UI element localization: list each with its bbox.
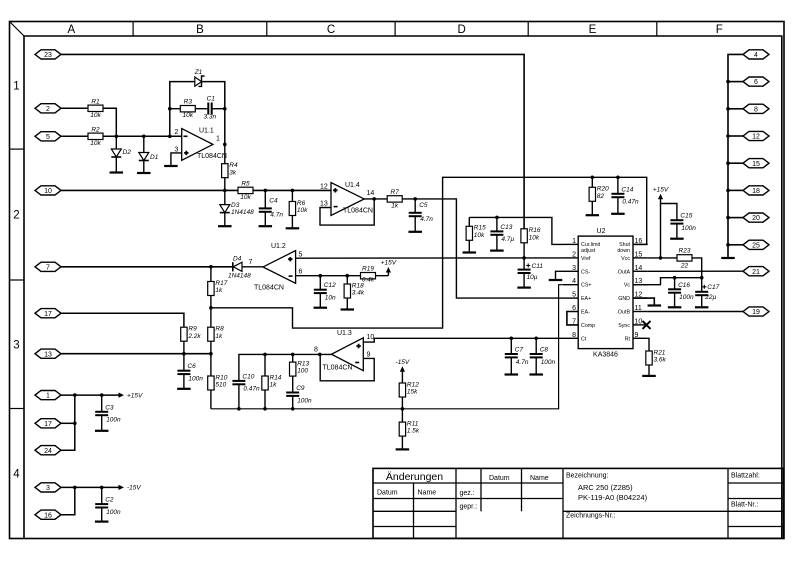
capacitor C11 — [518, 263, 544, 281]
svg-text:R11: R11 — [407, 421, 419, 428]
svg-text:22µ: 22µ — [704, 294, 716, 301]
svg-text:R21: R21 — [654, 349, 666, 356]
resistor R15 — [466, 225, 486, 241]
wire GND pin to ground — [633, 298, 654, 305]
wire CS- to ground — [556, 271, 564, 280]
row tick marks — [10, 149, 25, 408]
wire OutA to connector 21 — [648, 270, 743, 272]
svg-text:Z1: Z1 — [194, 69, 203, 76]
svg-text:TL084CN: TL084CN — [343, 208, 373, 215]
wire C13 to ground — [496, 235, 498, 251]
wire U1.3 output line — [239, 354, 332, 381]
connector 3 — [35, 483, 61, 492]
svg-text:R9: R9 — [188, 326, 197, 333]
svg-text:R12: R12 — [407, 381, 419, 388]
ground C15 — [670, 238, 684, 240]
svg-text:Vcc: Vcc — [621, 256, 630, 262]
svg-text:4: 4 — [572, 278, 576, 285]
svg-text:Sync: Sync — [618, 323, 630, 329]
svg-text:down: down — [617, 248, 630, 254]
ground R20 — [586, 214, 600, 216]
wire connector 17 to R9 — [61, 313, 184, 327]
junction dots Vc net — [673, 276, 704, 280]
wire R8 to node13 — [210, 341, 212, 376]
wire Vcc line — [648, 257, 677, 259]
connector 10 — [35, 186, 61, 195]
ground R18 — [341, 308, 355, 310]
svg-text:D: D — [457, 24, 465, 36]
resistor R20 — [589, 186, 609, 202]
wire R13 branch — [292, 354, 294, 362]
wire EA- to Comp loop — [567, 312, 578, 325]
junction dots shutdown net — [591, 176, 620, 180]
wire R15 branch — [468, 217, 470, 226]
ground R15 — [463, 251, 477, 253]
column tick marks — [133, 22, 657, 37]
wire R19 to +15V — [387, 272, 389, 276]
svg-text:510: 510 — [215, 382, 226, 389]
svg-text:C3: C3 — [105, 404, 114, 411]
resistor R18 — [344, 282, 365, 298]
svg-text:Blattzahl:: Blattzahl: — [731, 473, 760, 480]
wire bus to connector 12 — [728, 135, 743, 137]
wire R7 to C5 node — [403, 199, 564, 298]
junction R17/R8 — [209, 306, 213, 310]
svg-text:10k: 10k — [90, 140, 101, 147]
svg-text:100n: 100n — [106, 417, 121, 424]
svg-text:1.5k: 1.5k — [407, 428, 420, 435]
svg-text:A: A — [67, 24, 75, 36]
wire R11 to ground — [401, 436, 403, 449]
junction dots right bus — [726, 80, 730, 247]
capacitor C16 — [668, 282, 694, 301]
resistor R4 — [222, 162, 238, 178]
U1.1 input marks — [184, 136, 189, 155]
svg-text:C: C — [327, 24, 335, 36]
diode D1 — [139, 153, 159, 162]
svg-text:R5: R5 — [241, 180, 250, 187]
svg-text:D2: D2 — [123, 149, 132, 156]
ground C2 — [95, 520, 109, 522]
wire D1 to ground — [143, 161, 145, 174]
resistor R3 — [180, 99, 195, 120]
svg-text:8: 8 — [572, 332, 576, 339]
wire connector 10 line — [61, 189, 238, 191]
svg-text:C1: C1 — [207, 96, 216, 103]
wire R10 to bottom net — [210, 390, 212, 409]
wire U1.2 pin5 to U2 Vref — [296, 257, 564, 259]
svg-text:U1.3: U1.3 — [337, 330, 352, 337]
wire net 23 — [61, 54, 524, 228]
resistor R23 — [677, 248, 692, 270]
svg-text:3: 3 — [13, 339, 19, 351]
svg-text:Blatt-Nr.:: Blatt-Nr.: — [731, 502, 758, 509]
svg-text:CS-: CS- — [581, 269, 590, 275]
svg-text:3.4k: 3.4k — [352, 290, 365, 297]
ground C4 — [259, 225, 273, 227]
svg-text:U1.4: U1.4 — [345, 182, 360, 189]
connector 17 — [35, 309, 61, 318]
svg-text:25: 25 — [752, 242, 760, 249]
svg-text:R6: R6 — [297, 200, 306, 207]
row labels 1-4 — [13, 80, 20, 480]
capacitor C17 — [695, 284, 719, 301]
resistor R6 — [289, 200, 308, 216]
svg-text:C12: C12 — [324, 282, 336, 289]
wire R18 branch — [346, 276, 348, 284]
ground C14 — [611, 213, 625, 215]
svg-text:2: 2 — [46, 106, 50, 113]
svg-text:E: E — [589, 24, 597, 36]
svg-text:16: 16 — [635, 238, 643, 245]
svg-text:D1: D1 — [150, 154, 159, 161]
wire U1.1 pin3 to ground — [171, 153, 182, 166]
svg-text:R17: R17 — [215, 280, 227, 287]
connector 16 — [35, 510, 61, 519]
svg-text:10: 10 — [635, 318, 643, 325]
wire C3 to ground — [101, 415, 103, 431]
svg-text:B: B — [196, 24, 204, 36]
wire C16 branch — [674, 278, 676, 290]
wire +15V to Vcc — [660, 199, 662, 258]
ground U1.1 pin3 — [164, 165, 178, 167]
svg-text:C2: C2 — [105, 497, 114, 504]
svg-text:10k: 10k — [297, 207, 308, 214]
connector 12 — [743, 131, 769, 140]
frame corner diagonal — [10, 22, 25, 37]
connector 5 — [35, 132, 61, 141]
wire node to D3 — [224, 190, 226, 204]
junction R17 top — [209, 265, 213, 269]
wire R9 to node13 — [183, 341, 185, 354]
junction C5 — [372, 197, 417, 201]
svg-text:11: 11 — [635, 305, 642, 312]
svg-text:18: 18 — [752, 188, 760, 195]
wire C2 branch — [101, 487, 103, 504]
wire D2 to ground — [115, 157, 117, 173]
wire pin1 net — [469, 217, 563, 244]
wire R4 to node10 — [224, 178, 226, 191]
svg-text:2: 2 — [175, 129, 179, 136]
svg-text:14: 14 — [367, 190, 375, 197]
svg-text:C14: C14 — [621, 186, 633, 193]
svg-text:100n: 100n — [297, 397, 312, 404]
svg-text:4.7n: 4.7n — [516, 359, 529, 366]
svg-text:13: 13 — [320, 201, 328, 208]
connector 8 — [743, 104, 769, 113]
wire Vc net — [633, 278, 702, 285]
wire C15 branch — [661, 204, 677, 221]
wire C10 to bottom net — [238, 384, 240, 409]
connector 15 — [743, 159, 769, 168]
wire R6 to ground — [291, 216, 293, 229]
svg-text:R14: R14 — [270, 374, 282, 381]
wire R17 branch — [210, 267, 212, 282]
ground C17 — [695, 306, 709, 308]
svg-text:GND: GND — [618, 296, 630, 302]
ground D2 — [110, 171, 124, 173]
svg-text:22: 22 — [680, 263, 689, 270]
svg-text:0.47n: 0.47n — [243, 386, 260, 393]
svg-text:1k: 1k — [391, 202, 399, 209]
svg-text:D4: D4 — [233, 256, 242, 263]
svg-text:R20: R20 — [597, 186, 609, 193]
svg-text:TL084CN: TL084CN — [254, 285, 284, 292]
U1.3 input marks — [355, 344, 361, 363]
junction C13 — [495, 216, 499, 220]
svg-text:1: 1 — [216, 136, 220, 143]
svg-text:100n: 100n — [541, 359, 556, 366]
capacitor C15 — [670, 213, 696, 232]
diode D3 — [220, 202, 254, 216]
wire U1.4 output — [364, 198, 388, 200]
svg-text:R13: R13 — [297, 361, 309, 368]
wire C14 branch — [617, 177, 619, 194]
svg-text:TL084CN: TL084CN — [197, 153, 227, 160]
resistor R13 — [290, 361, 310, 377]
op-amp U1.2 — [249, 243, 303, 292]
power +15V rail — [119, 392, 144, 399]
wire C6 to ground — [183, 374, 185, 389]
svg-text:10k: 10k — [529, 234, 540, 241]
svg-text:15: 15 — [752, 161, 760, 168]
capacitor C10 — [232, 373, 260, 392]
wire node to D1 — [143, 136, 145, 152]
junction dots input line — [115, 135, 172, 139]
ground R11 — [396, 448, 410, 450]
svg-text:3.3n: 3.3n — [204, 114, 217, 121]
wire U1.1 feedback left — [170, 82, 195, 137]
ground C13 — [490, 250, 504, 252]
svg-text:TL084CN: TL084CN — [323, 365, 353, 372]
svg-text:6: 6 — [754, 79, 758, 86]
svg-text:23: 23 — [44, 52, 52, 59]
svg-text:10µ: 10µ — [527, 274, 538, 281]
wire R20 branch — [591, 177, 593, 187]
svg-text:10k: 10k — [240, 194, 251, 201]
svg-text:C6: C6 — [187, 363, 196, 370]
junction dots feedback — [168, 107, 227, 146]
title block — [373, 468, 784, 538]
connector 7 — [35, 262, 61, 271]
wire R6 branch — [291, 190, 293, 201]
svg-text:Datum: Datum — [489, 475, 510, 482]
wire C1 to output branch — [212, 108, 225, 110]
wire C7 branch — [510, 338, 512, 354]
svg-text:EA+: EA+ — [581, 296, 591, 302]
capacitor C6 — [177, 363, 203, 382]
wire Rt to R21 — [648, 338, 649, 351]
svg-text:5: 5 — [299, 252, 303, 259]
svg-text:82: 82 — [597, 193, 605, 200]
svg-text:4.7n: 4.7n — [270, 211, 283, 218]
svg-text:12: 12 — [752, 134, 760, 141]
svg-text:U1.1: U1.1 — [199, 128, 214, 135]
junction R16/Vref — [522, 256, 526, 260]
ground R6 — [286, 227, 300, 229]
svg-text:C16: C16 — [678, 282, 690, 289]
junction dots bottom net — [237, 407, 404, 411]
ground right bus — [721, 257, 735, 259]
svg-text:100n: 100n — [106, 509, 121, 516]
svg-text:gez.:: gez.: — [460, 490, 475, 497]
svg-text:5: 5 — [46, 134, 50, 141]
zener Z1 — [194, 69, 205, 86]
svg-text:Zeichnungs-Nr.:: Zeichnungs-Nr.: — [566, 513, 615, 520]
svg-text:ARC 250 (Z285): ARC 250 (Z285) — [578, 483, 633, 492]
svg-text:R8: R8 — [215, 326, 224, 333]
svg-text:10: 10 — [367, 334, 375, 341]
wire bus to connector 25 — [728, 244, 743, 246]
power -15V (R12) — [396, 359, 410, 372]
capacitor C13 — [490, 224, 514, 243]
wire R5 to U1.4 — [253, 189, 331, 191]
wire connector 2 to R1 — [61, 107, 88, 109]
svg-text:3k: 3k — [229, 169, 237, 176]
U1.4 input marks — [333, 188, 338, 207]
svg-text:10n: 10n — [325, 295, 336, 302]
wire C8 branch — [535, 338, 537, 354]
wire R4 branch — [224, 144, 226, 163]
resistor R10 — [208, 374, 228, 390]
ground C6 — [177, 388, 191, 390]
wire rail down to 24 — [61, 395, 75, 450]
wire C12 branch — [319, 276, 321, 290]
wire connector 1 to +15V — [61, 394, 119, 396]
capacitor C4 — [259, 197, 284, 218]
wire R13 to C9 — [292, 376, 294, 392]
svg-text:adjust: adjust — [581, 248, 596, 254]
svg-text:CS+: CS+ — [581, 283, 591, 289]
svg-text:C5: C5 — [419, 202, 428, 209]
wire C12 to ground — [319, 293, 321, 308]
svg-text:7: 7 — [46, 264, 50, 271]
ground C5 — [408, 231, 422, 233]
wire input line to U1.1 pin2 — [104, 135, 182, 137]
op-amp U1.3 — [314, 330, 374, 372]
wire bus to connector 8 — [728, 108, 743, 110]
ground CS- — [549, 279, 563, 281]
svg-text:1N4148: 1N4148 — [231, 209, 254, 216]
wire R14 branch — [264, 354, 266, 376]
resistor R14 — [262, 374, 282, 390]
ground D1 — [137, 172, 151, 174]
svg-text:3: 3 — [572, 265, 576, 272]
wire R15 to ground — [468, 240, 470, 252]
capacitor C2 — [95, 497, 121, 516]
svg-text:24: 24 — [44, 448, 52, 455]
wire C11 to ground — [523, 273, 525, 288]
wire C17 to ground — [701, 295, 703, 307]
wire C4 to ground — [264, 212, 266, 226]
wire Z1 to output node — [202, 82, 225, 145]
connector 25 — [743, 240, 769, 249]
svg-text:R2: R2 — [91, 126, 100, 133]
wire connector 3 to -15V — [61, 486, 119, 488]
svg-text:1k: 1k — [270, 382, 278, 389]
wire D4 to U1.2 — [242, 266, 263, 268]
svg-text:2: 2 — [13, 210, 19, 222]
ground C11 — [517, 287, 531, 289]
resistor R12 — [399, 381, 419, 397]
svg-text:R15: R15 — [474, 225, 486, 232]
wire node to U2 shutdown net — [211, 177, 647, 328]
wire OutB to connector 19 — [648, 311, 743, 313]
svg-text:R7: R7 — [391, 189, 400, 196]
wire C3 branch — [101, 395, 103, 412]
svg-text:7: 7 — [249, 259, 253, 266]
wire bus to connector 15 — [728, 162, 743, 164]
resistor R11 — [399, 421, 420, 437]
svg-text:4: 4 — [13, 469, 20, 481]
wire C7 to ground — [510, 357, 512, 374]
svg-text:C4: C4 — [269, 197, 278, 204]
wire R21 to ground — [648, 365, 650, 376]
wire R3 to C1 — [196, 108, 208, 110]
svg-text:8: 8 — [314, 347, 318, 354]
wire connector 13 line — [61, 353, 211, 355]
junction 17b — [73, 422, 77, 426]
power +15V (R19) — [381, 260, 397, 273]
svg-text:1k: 1k — [215, 333, 223, 340]
wire C4 branch — [264, 190, 266, 208]
wire right connector bus — [728, 54, 743, 258]
svg-text:1: 1 — [13, 80, 19, 92]
svg-text:PK-119-A0 (B04224): PK-119-A0 (B04224) — [578, 493, 648, 502]
connector 17 (supply) — [35, 419, 61, 428]
resistor R1 — [88, 98, 103, 119]
svg-text:2: 2 — [572, 251, 576, 258]
wire R14 to bottom net — [264, 390, 266, 409]
U1.2 input marks — [288, 257, 293, 276]
svg-text:1: 1 — [46, 393, 50, 400]
svg-text:Comp: Comp — [581, 323, 595, 329]
wire D3 to ground — [224, 213, 226, 227]
wire bus to connector 20 — [728, 217, 743, 219]
svg-text:C9: C9 — [296, 385, 305, 392]
connector 4 — [743, 50, 769, 59]
connector 23 — [35, 50, 61, 59]
svg-text:U2: U2 — [597, 228, 606, 235]
svg-text:C8: C8 — [540, 347, 549, 354]
svg-text:100: 100 — [297, 368, 308, 375]
svg-text:Vc: Vc — [624, 283, 631, 289]
resistor R17 — [208, 280, 228, 296]
wire C2 to ground — [101, 508, 103, 522]
wire R17 to node — [210, 296, 212, 328]
wire R16 to C11 — [523, 243, 525, 270]
wire R1 to node — [104, 108, 117, 136]
svg-text:4.7µ: 4.7µ — [501, 236, 514, 243]
junction +15V Vcc — [659, 256, 663, 260]
svg-text:OutB: OutB — [618, 310, 631, 316]
diode D2 — [111, 149, 131, 157]
svg-text:6: 6 — [299, 269, 303, 276]
connector 2 — [35, 104, 61, 113]
wire C17 branch — [701, 278, 703, 292]
junction dots pin6 line — [319, 274, 350, 278]
capacitor C7 — [505, 347, 529, 366]
wire R23 to Vc node — [693, 258, 702, 278]
svg-text:17: 17 — [44, 421, 52, 428]
wire -15V to R12 — [401, 371, 403, 383]
svg-text:16: 16 — [44, 512, 52, 519]
capacitor C9 — [286, 385, 312, 404]
wire feedback RC branch left — [170, 108, 180, 110]
svg-text:Vref: Vref — [581, 256, 591, 262]
wire R12 to node — [401, 397, 403, 422]
svg-text:8: 8 — [754, 106, 758, 113]
